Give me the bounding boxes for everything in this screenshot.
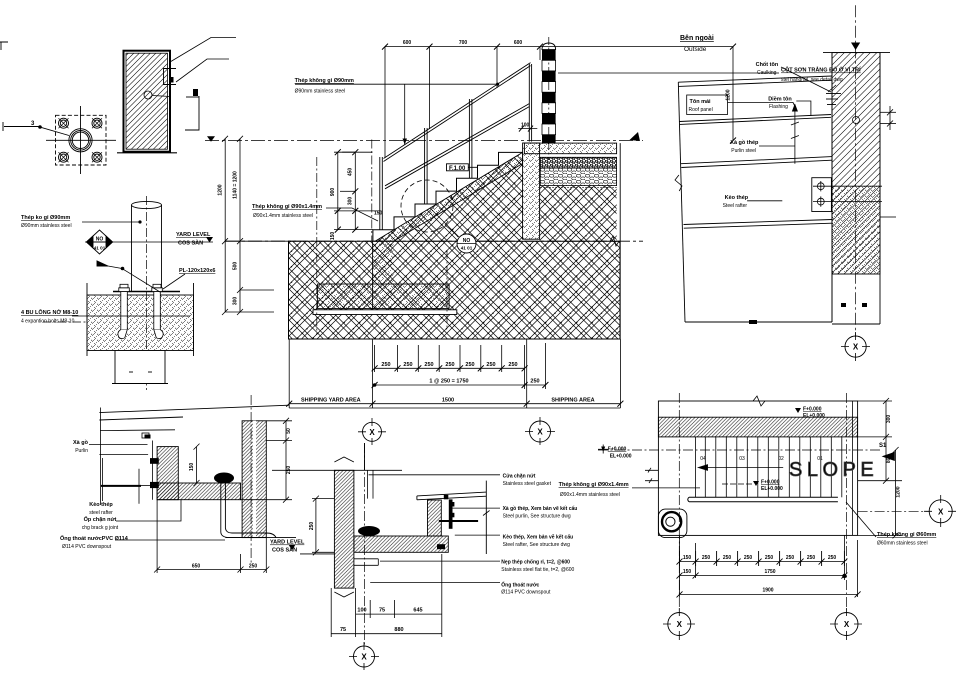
svg-text:Xà gồ thép: Xà gồ thép bbox=[730, 140, 759, 146]
svg-text:250: 250 bbox=[508, 362, 517, 368]
svg-text:Chốt tôn: Chốt tôn bbox=[756, 61, 779, 68]
svg-text:SLOPE: SLOPE bbox=[789, 459, 878, 481]
svg-text:300: 300 bbox=[348, 197, 354, 206]
svg-text:Steel rafter: Steel rafter bbox=[723, 203, 748, 209]
svg-text:Thép không gỉ Ø90mm: Thép không gỉ Ø90mm bbox=[295, 78, 354, 84]
svg-text:Steel rafter, See structure dw: Steel rafter, See structure dwg bbox=[503, 542, 570, 548]
svg-text:4 BU LÔNG NỞ M8-10: 4 BU LÔNG NỞ M8-10 bbox=[21, 308, 78, 316]
svg-text:250: 250 bbox=[807, 555, 816, 561]
svg-text:Ø90mm stainless steel: Ø90mm stainless steel bbox=[295, 89, 346, 95]
svg-text:Kèo thép: Kèo thép bbox=[725, 195, 749, 201]
svg-text:Ø90mm stainless steel: Ø90mm stainless steel bbox=[21, 223, 72, 229]
svg-text:X: X bbox=[369, 428, 375, 437]
svg-text:X: X bbox=[853, 343, 859, 352]
svg-text:F+0.000: F+0.000 bbox=[803, 407, 822, 413]
svg-text:250: 250 bbox=[403, 362, 412, 368]
svg-text:PL-120x120x6: PL-120x120x6 bbox=[179, 268, 215, 274]
svg-text:300: 300 bbox=[233, 297, 239, 306]
svg-text:Thép không gỉ Ø90x1.4mm: Thép không gỉ Ø90x1.4mm bbox=[252, 204, 322, 210]
svg-text:EL+0.000: EL+0.000 bbox=[803, 413, 825, 419]
svg-text:Steel purlin, See structure dw: Steel purlin, See structure dwg bbox=[503, 514, 571, 520]
svg-text:600: 600 bbox=[514, 40, 523, 46]
svg-text:NO: NO bbox=[463, 238, 471, 244]
svg-text:Roof panel: Roof panel bbox=[689, 107, 713, 113]
svg-text:SHIPPING AREA: SHIPPING AREA bbox=[551, 398, 594, 404]
svg-text:1140 = 1200: 1140 = 1200 bbox=[233, 171, 239, 199]
svg-text:41 01: 41 01 bbox=[461, 246, 473, 251]
svg-text:75: 75 bbox=[379, 608, 385, 614]
svg-text:250: 250 bbox=[702, 555, 711, 561]
svg-text:1900: 1900 bbox=[762, 588, 773, 594]
svg-text:250: 250 bbox=[381, 362, 390, 368]
svg-text:02: 02 bbox=[778, 456, 784, 462]
svg-text:4 expantion bolts M8-10: 4 expantion bolts M8-10 bbox=[21, 319, 75, 325]
svg-text:YARD LEVEL: YARD LEVEL bbox=[270, 540, 305, 546]
svg-text:150: 150 bbox=[683, 555, 692, 561]
svg-text:880: 880 bbox=[394, 627, 403, 633]
svg-text:600: 600 bbox=[403, 40, 412, 46]
svg-text:645: 645 bbox=[413, 608, 422, 614]
svg-text:Diềm tôn: Diềm tôn bbox=[768, 97, 792, 103]
svg-text:X: X bbox=[677, 620, 683, 629]
svg-text:650: 650 bbox=[192, 564, 201, 570]
svg-text:1200: 1200 bbox=[218, 184, 224, 195]
svg-text:Kèo thép: Kèo thép bbox=[89, 502, 113, 508]
svg-text:250: 250 bbox=[445, 362, 454, 368]
svg-text:1750: 1750 bbox=[764, 569, 775, 575]
svg-text:chg brack g joint: chg brack g joint bbox=[82, 525, 119, 531]
svg-text:Thép không gỉ Ø60mm: Thép không gỉ Ø60mm bbox=[877, 532, 936, 538]
svg-text:Tôn mái: Tôn mái bbox=[690, 99, 712, 105]
svg-text:1200: 1200 bbox=[896, 486, 902, 497]
svg-text:1 @ 250 = 1750: 1 @ 250 = 1750 bbox=[429, 379, 468, 385]
svg-text:NO: NO bbox=[96, 237, 104, 243]
svg-text:Cửa chặn nứt: Cửa chặn nứt bbox=[503, 473, 536, 479]
svg-text:250: 250 bbox=[249, 564, 258, 570]
svg-text:150: 150 bbox=[683, 569, 692, 575]
svg-text:X: X bbox=[938, 507, 944, 516]
svg-text:EL+0.000: EL+0.000 bbox=[761, 486, 783, 492]
svg-text:250: 250 bbox=[786, 555, 795, 561]
svg-text:250: 250 bbox=[424, 362, 433, 368]
svg-text:COS SÀN: COS SÀN bbox=[178, 240, 203, 247]
svg-text:250: 250 bbox=[828, 555, 837, 561]
svg-text:250: 250 bbox=[723, 555, 732, 561]
svg-text:Ø60mm stainless steel: Ø60mm stainless steel bbox=[877, 541, 928, 547]
svg-text:75: 75 bbox=[340, 627, 346, 633]
svg-text:S1: S1 bbox=[879, 443, 887, 449]
svg-text:250: 250 bbox=[486, 362, 495, 368]
svg-text:700: 700 bbox=[459, 40, 468, 46]
svg-text:100: 100 bbox=[357, 608, 366, 614]
svg-text:41 01: 41 01 bbox=[94, 246, 106, 251]
svg-text:50: 50 bbox=[286, 428, 292, 434]
svg-text:Ø90x1.4mm stainless steel: Ø90x1.4mm stainless steel bbox=[560, 492, 620, 498]
svg-text:Ốp chặn nứt: Ốp chặn nứt bbox=[84, 516, 117, 523]
svg-text:Xà gồ: Xà gồ bbox=[73, 440, 89, 446]
svg-text:250: 250 bbox=[309, 522, 315, 531]
svg-text:YARD LEVEL: YARD LEVEL bbox=[176, 232, 211, 238]
svg-text:03: 03 bbox=[739, 456, 745, 462]
svg-text:Purlin: Purlin bbox=[75, 448, 88, 454]
svg-text:Purlin steel: Purlin steel bbox=[731, 148, 756, 154]
svg-text:F+0.000: F+0.000 bbox=[608, 447, 627, 453]
svg-text:Stainless steel gasket: Stainless steel gasket bbox=[503, 481, 552, 487]
svg-text:04: 04 bbox=[700, 456, 706, 462]
svg-text:1500: 1500 bbox=[442, 398, 454, 404]
svg-text:150: 150 bbox=[189, 463, 195, 472]
svg-text:Xà gồ thép, Xem bản vẽ kết cấu: Xà gồ thép, Xem bản vẽ kết cấu bbox=[503, 505, 578, 512]
svg-text:150: 150 bbox=[330, 232, 336, 241]
svg-text:Ø114 PVC downspout: Ø114 PVC downspout bbox=[62, 544, 112, 550]
svg-text:Outside: Outside bbox=[684, 46, 707, 53]
svg-text:250: 250 bbox=[530, 379, 539, 385]
svg-text:EL+0.000: EL+0.000 bbox=[610, 454, 632, 460]
svg-text:Nẹp thép chống rỉ, t=2, @600: Nẹp thép chống rỉ, t=2, @600 bbox=[501, 559, 570, 566]
svg-text:Ø90x1.4mm stainless steel: Ø90x1.4mm stainless steel bbox=[253, 213, 313, 219]
svg-text:Stainless steel flat tie, t=2,: Stainless steel flat tie, t=2, @600 bbox=[501, 567, 574, 573]
svg-text:Thép ko gỉ Ø90mm: Thép ko gỉ Ø90mm bbox=[21, 215, 70, 221]
svg-text:Flashing: Flashing bbox=[769, 104, 788, 110]
svg-text:Ø114 PVC downspout: Ø114 PVC downspout bbox=[501, 590, 551, 596]
svg-text:Caulking: Caulking bbox=[757, 70, 777, 76]
svg-text:F.1.00: F.1.00 bbox=[449, 166, 466, 172]
svg-text:SHIPPING YARD AREA: SHIPPING YARD AREA bbox=[301, 398, 361, 404]
svg-text:450: 450 bbox=[348, 168, 354, 177]
svg-text:900: 900 bbox=[330, 188, 336, 197]
svg-text:150: 150 bbox=[374, 211, 383, 217]
svg-text:250: 250 bbox=[465, 362, 474, 368]
svg-text:X: X bbox=[844, 620, 850, 629]
svg-text:250: 250 bbox=[765, 555, 774, 561]
svg-text:X: X bbox=[361, 653, 367, 662]
svg-text:100: 100 bbox=[521, 123, 530, 129]
svg-text:300: 300 bbox=[886, 415, 892, 424]
svg-text:steel rafter: steel rafter bbox=[89, 510, 113, 516]
svg-text:250: 250 bbox=[744, 555, 753, 561]
svg-text:Thép không gỉ Ø90x1.4mm: Thép không gỉ Ø90x1.4mm bbox=[559, 482, 629, 488]
svg-text:Ống thoát nước: Ống thoát nước bbox=[501, 581, 539, 588]
svg-text:Bên ngoài: Bên ngoài bbox=[680, 35, 714, 42]
svg-text:Kèo thép, Xem bản vẽ kết cấu: Kèo thép, Xem bản vẽ kết cấu bbox=[503, 533, 574, 540]
svg-text:Ống thoát nướcPVC Ø114: Ống thoát nướcPVC Ø114 bbox=[60, 535, 129, 542]
svg-text:X: X bbox=[537, 428, 543, 437]
svg-text:F+0.000: F+0.000 bbox=[761, 480, 780, 486]
svg-text:500: 500 bbox=[233, 262, 239, 271]
